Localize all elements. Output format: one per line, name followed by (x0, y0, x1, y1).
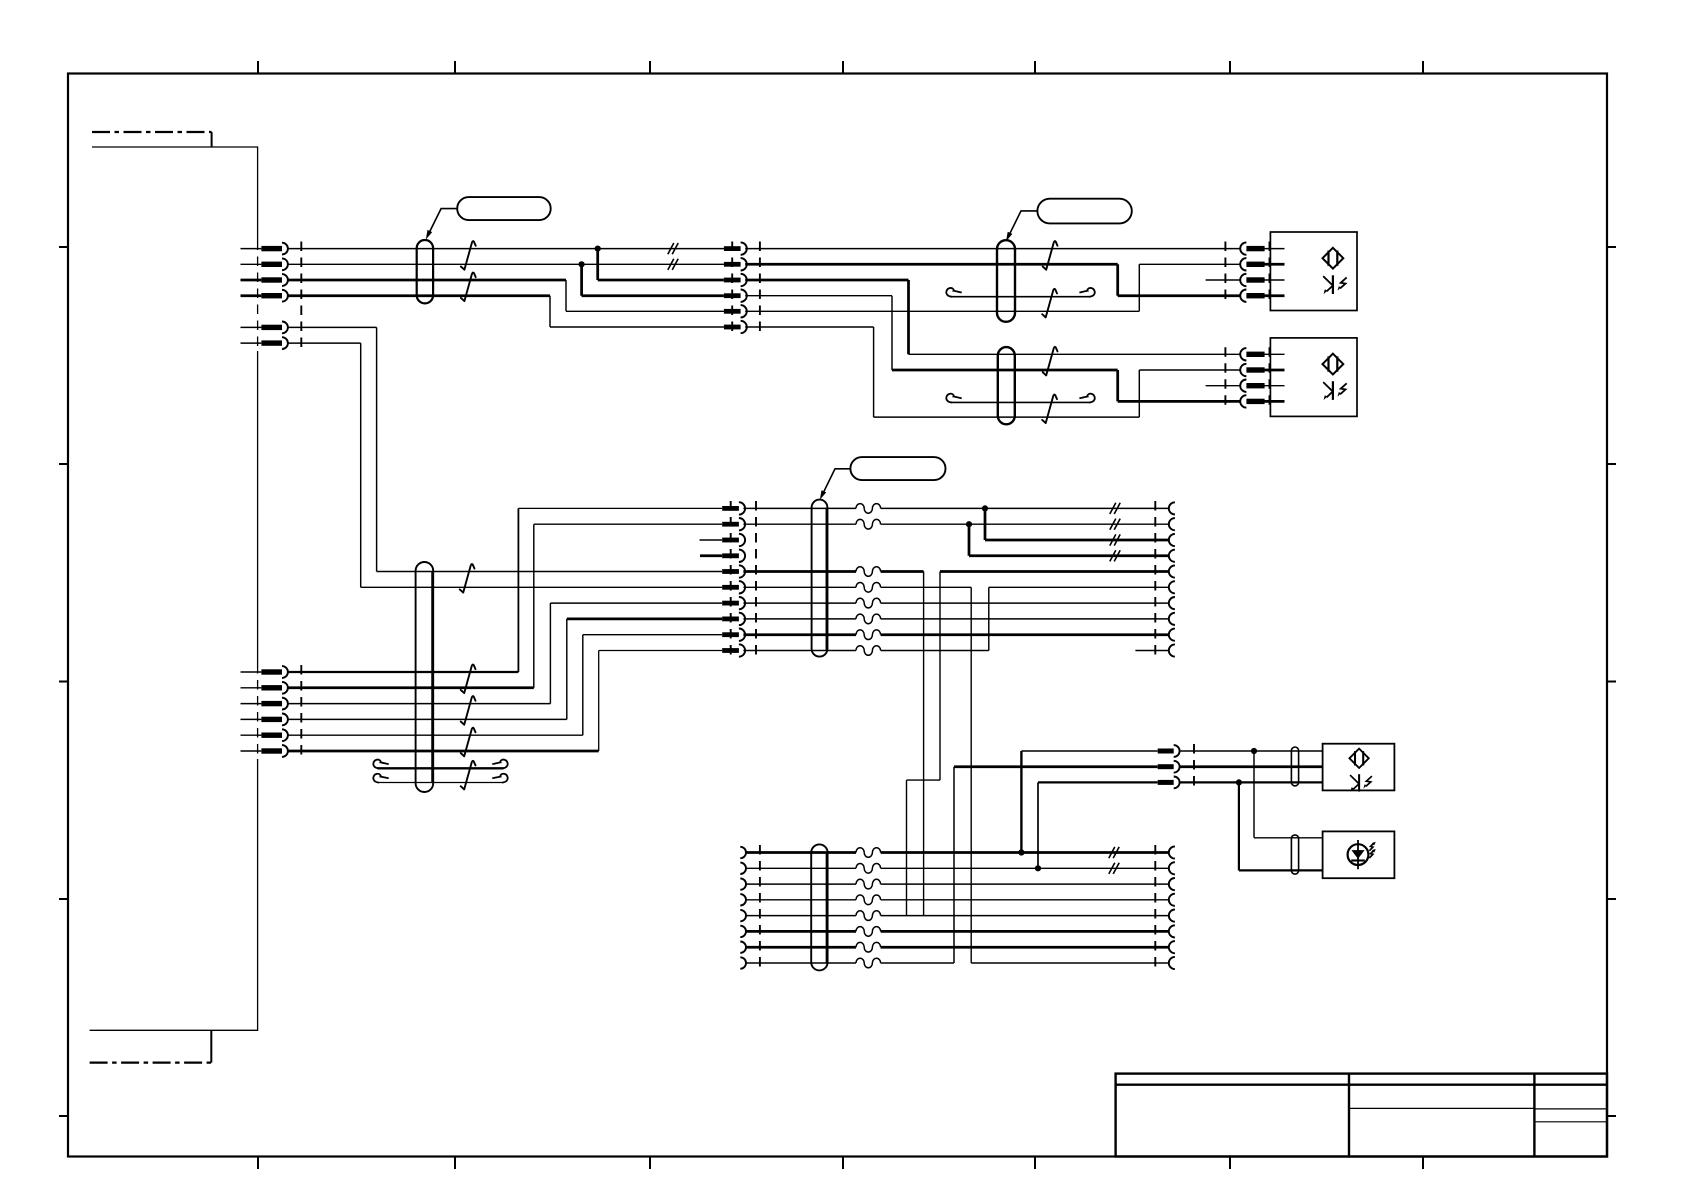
wire CN3-3 to PS2-1 (down leg) (745, 280, 908, 354)
cable clamp oval F (bottom bundle) (811, 844, 827, 970)
connector CN3 dashed line (left) (731, 242, 733, 335)
cable clamp oval E (lower-left harness) (416, 562, 434, 792)
connector CN1 pin stubs on board (241, 249, 262, 344)
crossover marks middle bundle (1110, 503, 1120, 514)
wire CN2-2 to CN4-2 (287, 686, 534, 689)
connector PS2 dashed lines (1225, 347, 1269, 408)
riser wire bottom row8 to PS3-2 (953, 767, 955, 963)
wire CN3-1 to PS1-1 (745, 248, 1240, 250)
junction node on wire CN1-2 (579, 261, 585, 267)
connector CN4 dashed line (right) (755, 501, 757, 658)
connector CN4 (inline bundle, 10 pins) (722, 502, 745, 657)
PS3 wires into sensor (1180, 750, 1323, 752)
wire CN4-6 down to lower bundle row 8 (743, 586, 971, 588)
wire CN2-5 to CN4-9 (287, 635, 722, 736)
connector CN7 dashed line (1154, 845, 1156, 970)
wire CN4-1 to terminal row 1 (743, 507, 1168, 509)
twisted-pair mark sensor1 wires a (1043, 241, 1058, 270)
leader line balloon 2 (1008, 211, 1038, 238)
connector CN2 pin stubs on board (241, 672, 262, 751)
connector CN6 dashed line (759, 845, 761, 970)
twisted-pair mark sensor2 wires a (1043, 347, 1058, 376)
harness shield line at clamp F (826, 853, 829, 964)
connector CN1 (board, 6 pins) (261, 243, 288, 349)
title block (1116, 1074, 1607, 1157)
junction node on wire CN1-1 (595, 246, 601, 252)
connector PS1 (photosensor 1, 4 pins) (1240, 242, 1264, 301)
balloon label 1 (457, 197, 551, 220)
wire CN3-5 to PS1-2 (jog up) (745, 264, 1240, 311)
junction node row1 (982, 505, 988, 511)
wire CN1-2 to CN3-2 (287, 263, 724, 265)
stub wire CN4-4 (700, 554, 722, 557)
wire CN1-3 to CN3-5 (jog down) (287, 279, 566, 282)
connector PS2 (photosensor 2, 4 pins) (1240, 348, 1264, 408)
wire CN4-8 to terminal row 8 (743, 618, 1168, 620)
twisted-pair mark sensor1 wires b (1042, 289, 1057, 318)
cable clamp oval A (417, 240, 433, 303)
stub wire PS1-3 (1206, 279, 1241, 281)
connector PS3 dashed line (1193, 744, 1195, 790)
PCB continuation step (bottom) (210, 1030, 212, 1062)
crossover mark on wire CN1-2 (668, 259, 678, 270)
riser wire bottom row1 to PS3-1 (1020, 751, 1022, 853)
twisted-pair mark on wires 3-4 (461, 273, 476, 302)
wire CN3-4 to PS2-4 (745, 296, 892, 370)
PCB board outline (left) (90, 147, 258, 1030)
wire CN4-9 to terminal row 9 (743, 633, 1168, 636)
photosensor PS3 box (1323, 744, 1395, 791)
connector CN3 (inline, 6 pins) (724, 242, 747, 333)
connector PS2 stub wires into sensor (1264, 354, 1284, 385)
connector CN2 (board, 6 pins) (261, 666, 288, 757)
wire bottom row 8 right (971, 962, 1168, 964)
junction node bottom row1 (1018, 849, 1024, 855)
twisted-pair mark CN2 wires 3-4 (461, 696, 476, 725)
riser wire bottom row2 to PS3-3 (1037, 782, 1039, 868)
wire bottom row 7 (746, 946, 1169, 949)
connector CN1 mating face dashed line (300, 242, 302, 351)
PCB edge dashed at connector CN1 (257, 241, 259, 352)
cable clamp oval C (998, 347, 1015, 424)
wire CN4-7 to terminal row 7 (743, 602, 1168, 604)
wire bottom row 4 (746, 899, 1169, 901)
junction node bottom row2 (1035, 865, 1041, 871)
connector CN4 dashed line (left) (730, 501, 732, 658)
connector PS1 stub wires into sensor (1264, 249, 1284, 280)
leader line balloon 1 (428, 209, 458, 236)
photosensor PS2 box (1270, 338, 1357, 417)
connector CN3 dashed line (right) (759, 242, 761, 335)
wire PS3-3 branch to LED4 (cathode) (1239, 782, 1323, 870)
stub wire PS2-3 (1206, 385, 1241, 387)
wire CN2-4 to CN4-8 (287, 619, 567, 720)
balloon label 3 (850, 457, 945, 480)
wire bottom row 3 (746, 883, 1169, 885)
wire bottom row 1 (746, 851, 1169, 854)
branch wire node-2 to CN3-4 (582, 264, 724, 295)
wire CN2-6 to CN4-10 (287, 750, 598, 753)
LED symbol (1348, 840, 1376, 869)
wire PS3-1 branch to LED4 (anode) (1254, 751, 1323, 838)
connector PS1 dashed lines (1225, 242, 1269, 303)
wire CN1-5 to CN4-5 (down leg) (287, 327, 722, 571)
wire CN4-5 down to lower bundle row 5 (743, 570, 923, 573)
terminal arcs CN6 (bottom bundle left) (740, 847, 746, 969)
cable clamp oval D (middle bundle) (812, 500, 828, 657)
leader line balloon 3 (822, 469, 851, 496)
junction node row2 (966, 521, 972, 527)
twisted-pair mark sensor2 wires b (1042, 395, 1057, 424)
connector CN2 mating face dashed line (300, 665, 302, 758)
shield drain wire (sensor 2 harness) (951, 401, 1091, 403)
photosensor PS2 symbol (1323, 354, 1347, 400)
wire bottom row 6 (746, 930, 1169, 933)
PCB continuation step (top) (211, 132, 213, 147)
cable clamp oval B (997, 240, 1015, 322)
photosensor PS1 symbol (1323, 248, 1347, 294)
terminal arcs CN5 (middle bundle right) (1169, 502, 1175, 656)
wire bottom row 8 left (to sensor PS3-2 riser) (746, 962, 954, 964)
shield drain wire (lower harness) lower (378, 782, 504, 784)
terminal row 5 wire with down leg and jog (940, 570, 1169, 573)
wire CN3-6 to PS2-2 (jog) (745, 327, 1240, 417)
twisted-pair mark harness2 wires 5-6 (460, 564, 475, 593)
wire bottom row 2 (746, 867, 1169, 869)
wire CN4-10 to terminal row 6 (jog up) (743, 587, 1168, 650)
connector PS3 (photosensor 3, 3 pins) (1158, 745, 1180, 788)
junction node PS3 wire3 (1236, 779, 1242, 785)
wire CN2-3 to CN4-7 (287, 603, 722, 704)
wire bottom row 5 (746, 915, 1169, 917)
PCB continuation dash-dot line (top) (92, 131, 212, 133)
twisted-pair mark on wires 1-2 (461, 241, 476, 270)
twisted-pair mark drain wires (461, 761, 476, 790)
wire CN1-4 to CN3-6 (jog down) (287, 294, 550, 297)
terminal arcs CN7 (bottom bundle right) (1169, 846, 1175, 969)
wire CN4-2 to terminal row 2 (743, 523, 1168, 525)
slack bumps bottom bundle (856, 848, 881, 858)
stub wire terminal row 10 (1135, 650, 1168, 652)
harness shield line at clamp E (431, 572, 434, 783)
shield drain wire (lower harness) upper (378, 767, 504, 769)
wire CN3-2 to PS1-4 (step down) (745, 264, 1240, 295)
cable clamp oval G (sensor 3) (1291, 747, 1298, 786)
balloon label 2 (1037, 199, 1131, 224)
junction node PS3 wire1 (1251, 748, 1257, 754)
stub wire CN4-3 (700, 539, 723, 541)
shield drain wire (sensor 1 harness) (951, 296, 1091, 298)
PCB edge dashed at connector CN2 (257, 664, 259, 759)
wire CN2-1 to CN4-1 (287, 671, 518, 673)
photosensor PS1 box (1270, 232, 1357, 311)
twisted-pair mark CN2 wires 1-2 (461, 665, 476, 694)
branch row2 to terminal row 4 (969, 524, 1169, 556)
LED unit box (1323, 831, 1395, 878)
connector CN5 dashed line (1154, 501, 1156, 658)
harness shield line at clamp D (826, 508, 829, 650)
wire CN1-6 to CN4-6 (down leg) (287, 343, 722, 587)
crossover marks bottom bundle (1109, 847, 1119, 858)
wire CN1-1 to CN3-1 (287, 248, 724, 250)
PCB continuation dash-dot line (bottom) (90, 1061, 212, 1063)
branch row1 to terminal row 3 (985, 508, 1169, 540)
twisted-pair mark CN2 wires 5-6 (461, 728, 476, 757)
cable clamp oval H (LED 4) (1291, 835, 1298, 874)
crossover mark on wire CN1-1 (668, 243, 678, 254)
branch wire node-1 to CN3-3 (598, 249, 724, 280)
slack bumps middle bundle (856, 504, 881, 514)
photosensor PS3 symbol (1349, 749, 1372, 792)
